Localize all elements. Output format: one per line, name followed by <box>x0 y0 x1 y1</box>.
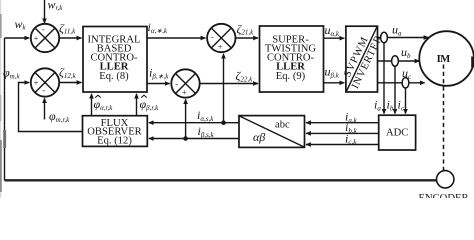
svg-text:-: - <box>42 85 45 95</box>
svg-text:αβ: αβ <box>253 130 265 144</box>
block SVPWM inverter <box>342 26 385 92</box>
wire i_c,k ADC to abc transform <box>306 144 379 146</box>
wire u_beta,k super-twisting to inverter <box>324 82 345 84</box>
svg-text:+: + <box>218 41 223 51</box>
wire i_b,k ADC to abc transform <box>306 132 379 134</box>
wire zeta21 S3 to super-twisting controller <box>236 37 259 39</box>
junction dot beta current <box>183 136 188 141</box>
wire i_a sensor drop to ADC <box>383 43 385 114</box>
svg-text:-: - <box>42 24 45 34</box>
summing junction S1 (speed error) <box>31 24 59 52</box>
dashed shaft line IM to encoder <box>443 65 445 171</box>
wire i_beta,*,k integral controller to S4 <box>147 83 170 85</box>
wire i_beta,s,k abc transform to flux observer <box>149 138 239 140</box>
summing junction S4 (beta current error) <box>171 69 199 97</box>
block super-twisting controller Eq. (9) <box>260 26 324 92</box>
wire zeta22 S4 to super-twisting controller <box>200 83 258 85</box>
wire phi_m,k feedback from flux observer into S2 <box>19 83 83 132</box>
wire phi-hat-beta from flux observer to integral controller <box>136 94 138 116</box>
svg-text:+: + <box>34 33 39 43</box>
wire i_a,k ADC to abc transform <box>306 122 379 124</box>
wire i_alpha,s,k abc transform to flux observer <box>149 122 239 124</box>
label phi-hat_beta,r,k <box>140 95 160 112</box>
wire zeta11 S1 to integral controller <box>59 37 81 39</box>
wire zeta12 S2 to integral controller <box>59 82 81 84</box>
wire phi_m,r,k reference stub into S2 bottom <box>44 98 46 119</box>
summing junction S3 (alpha current error) <box>207 24 235 52</box>
wire speed feedback vertical left <box>4 38 6 181</box>
wire i_b sensor drop to ADC <box>394 66 396 114</box>
block integral based controller Eq. (8) <box>83 27 147 93</box>
svg-text:+: + <box>182 87 187 97</box>
wire phi-hat-alpha from flux observer to integral controller <box>91 94 93 116</box>
wire i_alpha,*,k integral controller to S3 <box>147 37 206 39</box>
wire u_c phase line to IM <box>378 82 425 84</box>
svg-text:ADC: ADC <box>386 128 408 139</box>
svg-text:-: - <box>211 32 214 42</box>
block flux observer Eq. (12) <box>83 116 148 147</box>
svg-text:-: - <box>175 79 178 89</box>
svg-text:abc: abc <box>275 120 290 131</box>
svg-text:Eq. (9): Eq. (9) <box>276 71 306 82</box>
label phi-hat_alpha,r,k <box>94 95 114 112</box>
junction dot alpha current <box>221 120 226 125</box>
wire w_k input into S1 <box>5 37 30 39</box>
wire bottom encoder feedback <box>5 179 438 181</box>
svg-text:+: + <box>34 78 39 88</box>
current sensor ellipse phase b <box>392 56 399 66</box>
svg-text:IM: IM <box>437 54 451 65</box>
encoder <box>418 171 469 204</box>
scan artifact left edge <box>0 0 6 198</box>
wire u_alpha,k super-twisting to inverter <box>324 37 345 39</box>
current sensor ellipse phase c <box>402 78 409 88</box>
svg-text:Eq. (8): Eq. (8) <box>99 71 129 82</box>
block abc to alpha-beta transform <box>239 116 305 148</box>
motor shaft stub at image edge <box>471 57 474 68</box>
svg-text:Eq. (12): Eq. (12) <box>97 135 132 146</box>
wire beta current feedback up to S4 <box>185 99 187 138</box>
summing junction S2 (flux error) <box>31 68 59 96</box>
wire alpha current feedback up to S3 <box>223 54 225 123</box>
wire w_r,k reference input from top <box>44 0 46 23</box>
wire i_c sensor drop to ADC <box>405 88 407 114</box>
motor IM <box>419 31 474 86</box>
block ADC <box>379 115 416 150</box>
wire u_a phase line to IM <box>378 37 429 39</box>
wire u_b phase line to IM <box>378 60 420 62</box>
current sensor ellipse phase a <box>381 32 388 42</box>
svg-text:ENCODER: ENCODER <box>418 193 469 198</box>
